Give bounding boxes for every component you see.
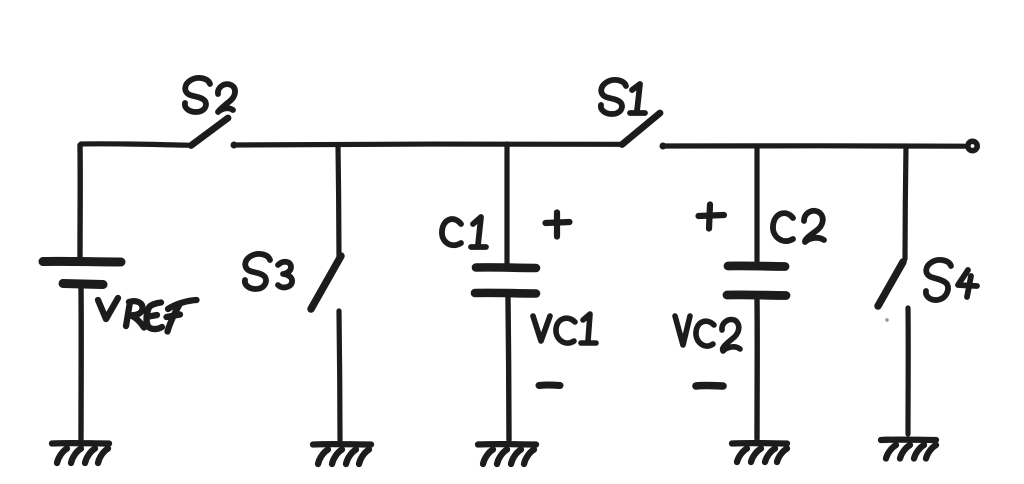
wire top right horizontal S1 to output terminal: [664, 143, 964, 149]
switch S4 residue dot: [885, 318, 888, 321]
switch S2 right contact dot: [231, 142, 238, 149]
label S2: [185, 78, 235, 112]
label S4: [926, 260, 977, 300]
wire left vertical down to battery: [77, 145, 83, 257]
label C2: [773, 211, 824, 242]
wire VREF bottom vertical: [78, 288, 84, 439]
switch S3 blade: [311, 256, 341, 309]
label S1: [601, 80, 645, 114]
battery VREF long plate: [43, 257, 121, 267]
plus sign near C2: [699, 205, 725, 229]
switch S1 blade: [622, 113, 660, 145]
minus sign near C2: [696, 382, 723, 390]
switch S2 blade: [191, 118, 228, 146]
wire C2 lower vertical: [754, 299, 760, 439]
wire S4 upper vertical: [905, 146, 906, 259]
capacitor C1 bottom plate: [475, 289, 536, 298]
wire C1 lower vertical: [508, 298, 509, 440]
wire S4 lower vertical: [905, 308, 910, 434]
ground C1: [478, 444, 536, 464]
label VC1: [533, 314, 596, 343]
wire top-left horizontal from VREF corner to S2 left contact: [81, 144, 188, 145]
ground VREF: [52, 443, 109, 463]
output terminal ring: [968, 141, 977, 150]
capacitor C1 top plate: [476, 263, 536, 272]
ground C2: [732, 443, 787, 462]
ground S3: [313, 444, 371, 464]
label S3: [245, 254, 292, 289]
wire top middle horizontal S2 to S1: [235, 141, 620, 147]
label C1: [442, 217, 486, 247]
plus sign near C1: [546, 213, 570, 237]
minus sign near C1: [539, 381, 560, 389]
capacitor C2 bottom plate: [727, 290, 786, 299]
switch S1 right contact dot: [660, 143, 667, 150]
wire C2 upper vertical: [754, 146, 759, 261]
switch S4 blade: [878, 262, 903, 306]
battery VREF short plate: [63, 284, 103, 285]
ground S4: [881, 440, 936, 459]
label VC2: [675, 316, 740, 351]
wire S3 lower vertical: [339, 311, 340, 440]
wire C1 upper vertical: [504, 144, 509, 263]
label VREF: [98, 298, 197, 332]
capacitor C2 top plate: [728, 261, 785, 270]
wire S3 upper vertical: [338, 145, 339, 257]
